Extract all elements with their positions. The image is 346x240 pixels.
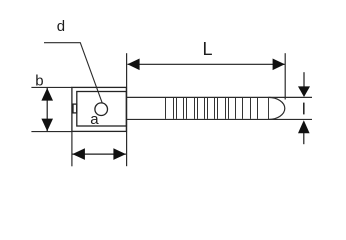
- leader line for d: [44, 43, 102, 103]
- width left extension line below head: [71, 131, 73, 166]
- L left extension line: [126, 53, 128, 166]
- strap bottom edge with right extension: [127, 118, 312, 120]
- strap tip boundary line: [268, 97, 270, 119]
- L left arrowhead: [127, 59, 139, 71]
- strap top edge with right extension: [127, 96, 312, 98]
- mounting hole circle: [95, 103, 108, 116]
- head outer body rectangle: [72, 87, 127, 131]
- width dimension line: [73, 153, 126, 155]
- strap rounded tip arc: [269, 97, 285, 119]
- thickness dimension dash: [303, 103, 305, 115]
- b bottom extension line: [31, 131, 72, 133]
- svg-text:a: a: [90, 111, 99, 128]
- b top extension line: [31, 86, 72, 88]
- latch tab on left wall: [73, 104, 77, 113]
- b dimension line: [46, 88, 48, 132]
- thickness bottom arrowhead pointing up: [298, 120, 310, 133]
- svg-text:L: L: [203, 39, 213, 59]
- b top arrowhead: [41, 88, 53, 101]
- width right arrowhead: [113, 148, 126, 160]
- L right arrowhead: [273, 59, 285, 71]
- svg-text:d: d: [57, 18, 65, 35]
- L right extension line: [284, 53, 286, 99]
- L dimension line: [127, 63, 284, 65]
- b bottom arrowhead: [41, 119, 53, 132]
- thickness top arrowhead pointing down: [298, 86, 310, 97]
- strap ribs: [166, 98, 258, 119]
- thickness top arrow tail: [303, 72, 305, 86]
- head inner cavity rectangle: [77, 92, 127, 127]
- width left arrowhead: [72, 148, 85, 160]
- thickness bottom arrow tail: [303, 133, 305, 144]
